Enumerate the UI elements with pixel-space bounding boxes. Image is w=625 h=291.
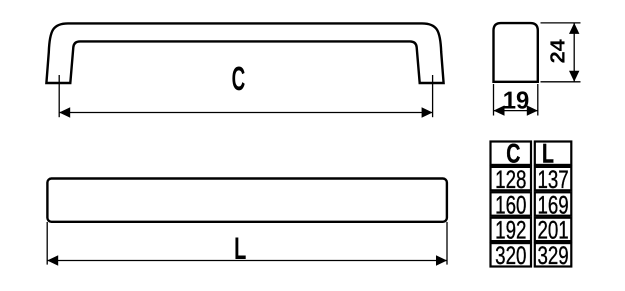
- svg-text:329: 329: [537, 242, 568, 270]
- table cell 169: [535, 192, 572, 215]
- extension line L left: [46, 222, 48, 265]
- arrowhead L right: [436, 255, 447, 265]
- dimension line 24: [573, 23, 575, 82]
- arrowhead 24 bottom: [569, 71, 579, 82]
- extension line left foot: [58, 75, 60, 117]
- svg-text:160: 160: [495, 191, 526, 219]
- arrowhead C left: [59, 107, 70, 117]
- table cell header L: [535, 142, 572, 165]
- dimension line C: [59, 112, 432, 114]
- arrowhead 24 top: [569, 23, 579, 34]
- side view rectangle: [494, 23, 538, 82]
- svg-text:192: 192: [495, 217, 526, 245]
- svg-text:C: C: [232, 61, 246, 98]
- svg-text:137: 137: [537, 166, 568, 194]
- svg-text:320: 320: [495, 242, 526, 270]
- dimension line 19: [494, 110, 538, 112]
- svg-text:128: 128: [495, 166, 526, 194]
- extension line 19 left: [493, 84, 495, 116]
- svg-text:19: 19: [503, 87, 530, 114]
- table cell 192: [491, 218, 532, 241]
- arrowhead 19 left: [494, 105, 505, 115]
- top view rectangle: [47, 179, 447, 222]
- table cell 201: [535, 218, 572, 241]
- arrowhead C right: [422, 107, 433, 117]
- dimension line L: [47, 260, 447, 262]
- handle front view outline: [46, 23, 443, 83]
- svg-text:169: 169: [537, 191, 568, 219]
- svg-text:L: L: [234, 231, 246, 266]
- svg-text:C: C: [506, 139, 520, 169]
- table cell 137: [535, 167, 572, 190]
- extension line right foot: [432, 75, 434, 117]
- svg-text:24: 24: [546, 39, 569, 64]
- table cell 160: [491, 192, 532, 215]
- extension line L right: [446, 222, 448, 265]
- extension line 24 top: [541, 22, 581, 24]
- arrowhead 19 right: [527, 105, 538, 115]
- svg-text:L: L: [542, 139, 554, 169]
- table cell 320: [491, 243, 532, 266]
- extension line 19 right: [537, 84, 539, 116]
- table cell header C: [491, 142, 532, 165]
- svg-text:201: 201: [537, 217, 568, 245]
- arrowhead L left: [47, 255, 58, 265]
- table cell 329: [535, 243, 572, 266]
- table cell 128: [491, 167, 532, 190]
- extension line 24 bottom: [541, 81, 581, 83]
